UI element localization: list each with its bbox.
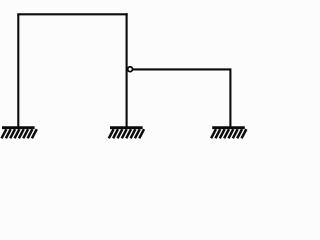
middle column member xyxy=(126,13,128,126)
middle fixed support ground bar xyxy=(110,126,143,129)
right beam member xyxy=(133,68,231,70)
left fixed support ground bar xyxy=(2,126,35,129)
top beam member xyxy=(17,13,127,15)
left fixed support hatching xyxy=(2,129,37,138)
right column member xyxy=(229,68,231,126)
right fixed support hatching xyxy=(211,129,246,138)
pin hinge at node B xyxy=(128,67,133,72)
right fixed support ground bar xyxy=(212,126,245,129)
middle fixed support hatching xyxy=(109,129,144,138)
left column member xyxy=(17,14,19,126)
